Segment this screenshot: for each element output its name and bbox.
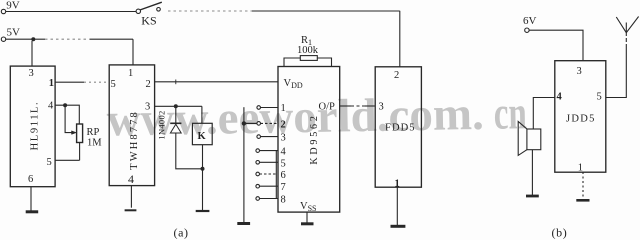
svg-text:6V: 6V — [523, 15, 537, 27]
node pin8 circle — [256, 197, 260, 201]
svg-text:3: 3 — [577, 66, 582, 77]
svg-text:1N4002: 1N4002 — [157, 110, 167, 139]
svg-text:1: 1 — [128, 68, 133, 79]
ground left of KD9562 — [237, 222, 250, 225]
svg-text:1: 1 — [395, 179, 400, 190]
node 9V terminal — [1, 9, 5, 13]
svg-text:2: 2 — [281, 120, 286, 131]
node 5V terminal — [1, 37, 5, 41]
resistor RP wiper arrow — [72, 131, 77, 135]
wire pins4-8 bus — [275, 151, 277, 199]
node tick on pin2 wire — [175, 80, 177, 85]
wire TWH8778 pin3 — [155, 105, 202, 107]
svg-text:4: 4 — [557, 92, 563, 103]
wire JDD5 pin4 to speaker — [533, 98, 555, 130]
ground under FDD5 — [391, 225, 406, 228]
svg-text:KS: KS — [141, 13, 156, 27]
wire pin3 — [261, 136, 279, 138]
wire pin8 — [260, 198, 279, 200]
svg-text:6: 6 — [28, 174, 33, 185]
svg-text:7: 7 — [281, 182, 286, 193]
svg-text:5: 5 — [47, 157, 52, 168]
switch KS — [136, 9, 140, 13]
wire pin4 — [260, 150, 279, 152]
svg-text:100k: 100k — [297, 45, 319, 56]
svg-text:9V: 9V — [6, 0, 19, 12]
wire HL911L pin1 to TWH8778 pin5 — [55, 81, 84, 83]
ground under speaker — [526, 195, 539, 198]
wire pin1 — [261, 107, 279, 109]
svg-text:3: 3 — [29, 68, 34, 79]
wire 6V to JDD5 pin3 — [529, 30, 583, 60]
ground under HL911L — [26, 210, 39, 213]
wire relay to ground — [202, 145, 204, 211]
ground under JDD5 — [576, 199, 589, 202]
wire 5V to HL911L pin3 — [31, 41, 33, 66]
node pin3 circle — [257, 135, 261, 139]
svg-text:RP: RP — [87, 127, 100, 138]
wire JDD5 pin1 ground stem — [582, 172, 584, 198]
svg-text:6: 6 — [281, 170, 286, 181]
wire TWH8778 pin2 to KD9562 VDD — [155, 81, 278, 83]
IC U5 JDD5 box — [555, 61, 606, 173]
svg-text:8: 8 — [281, 195, 286, 206]
resistor R1 100k — [284, 58, 300, 67]
wire HL911L pin5 — [55, 159, 80, 161]
wire speaker to ground — [531, 150, 533, 196]
wire 9V drop to FDD5 pin2 — [399, 11, 401, 67]
wire O/P to FDD5 pin3 — [340, 105, 351, 107]
wire 9V rail switch to FDD5 drop — [168, 10, 252, 12]
svg-text:HL911L.: HL911L. — [30, 101, 41, 151]
svg-text:JDD5: JDD5 — [566, 114, 596, 125]
ground under relay — [196, 210, 210, 212]
svg-text:cn: cn — [493, 87, 527, 140]
relay K coil box — [201, 106, 203, 123]
wire HL911L pin6 ground stem — [30, 187, 32, 212]
node pin1 circle — [257, 106, 261, 110]
svg-text:3: 3 — [379, 102, 384, 113]
node junction 5V — [31, 37, 35, 41]
node pin4 circle — [256, 149, 260, 153]
svg-text:1: 1 — [49, 78, 54, 89]
IC U2 TWH8778 box — [109, 65, 154, 186]
node junction pin2 — [242, 121, 246, 125]
antenna ANT — [625, 33, 627, 48]
ground under TWH8778 — [125, 209, 137, 211]
wire pin5 — [260, 161, 279, 163]
wire 5V rail — [6, 38, 45, 40]
node junction pin4 — [63, 103, 67, 107]
wire 5V to TWH8778 pin1 — [132, 39, 134, 65]
wire JDD5 pin5 to antenna — [606, 48, 627, 98]
wire KD9562 left ground wire — [243, 107, 245, 223]
wire FDD5 pin1 ground stem — [396, 187, 398, 226]
svg-text:2: 2 — [394, 70, 399, 81]
node junction pin3/diode — [174, 104, 178, 108]
ground under KD9562 — [301, 222, 314, 225]
svg-text:(b): (b) — [552, 226, 568, 240]
node pin7 circle — [256, 184, 260, 188]
wire pin4 junction to RP wiper — [65, 105, 76, 132]
svg-text:KD9562: KD9562 — [309, 113, 320, 164]
svg-text:TWH8778: TWH8778 — [129, 110, 140, 170]
svg-text:O/P: O/P — [319, 102, 336, 113]
svg-text:4: 4 — [281, 147, 287, 158]
svg-text:5: 5 — [281, 159, 286, 170]
svg-text:3: 3 — [281, 133, 286, 144]
svg-text:4: 4 — [128, 172, 134, 186]
diode D1 1N4002 — [175, 106, 177, 123]
node junction diode/relay ground — [201, 167, 205, 171]
svg-text:(a): (a) — [174, 226, 189, 240]
wire TWH8778 pin4 ground stem — [130, 186, 132, 208]
svg-text:FDD5: FDD5 — [385, 123, 416, 134]
node pin6 circle — [256, 172, 260, 176]
wire pin7 — [260, 185, 279, 187]
svg-text:1: 1 — [281, 103, 286, 114]
svg-text:1M: 1M — [87, 138, 102, 149]
node pin5 circle — [256, 161, 260, 165]
svg-text:5: 5 — [597, 92, 602, 103]
resistor RP 1M box — [77, 124, 83, 143]
svg-text:3: 3 — [145, 102, 150, 113]
svg-text:K: K — [198, 131, 207, 142]
wire HL911L pin4 to RP top — [55, 105, 79, 124]
wire pin6 dashed — [260, 173, 279, 175]
IC U4 FDD5 box — [375, 67, 421, 187]
wire KD9562 VSS ground stem — [306, 212, 308, 224]
svg-text:5V: 5V — [7, 27, 21, 39]
wire pin2 solid part — [246, 122, 257, 124]
wire 9V rail to switch — [6, 11, 136, 13]
svg-text:2: 2 — [146, 79, 151, 90]
IC U1 HL911L box — [10, 66, 55, 187]
speaker BL — [527, 129, 541, 150]
wire RP bottom to pin5 — [79, 143, 81, 161]
node 6V terminal — [525, 28, 529, 32]
wire pin2 dashed part — [261, 122, 279, 124]
node pin2 circle — [257, 122, 261, 126]
svg-text:5: 5 — [111, 79, 116, 90]
svg-text:1: 1 — [578, 163, 583, 174]
IC U3 KD9562 box — [278, 67, 340, 213]
svg-text:4: 4 — [48, 101, 54, 112]
